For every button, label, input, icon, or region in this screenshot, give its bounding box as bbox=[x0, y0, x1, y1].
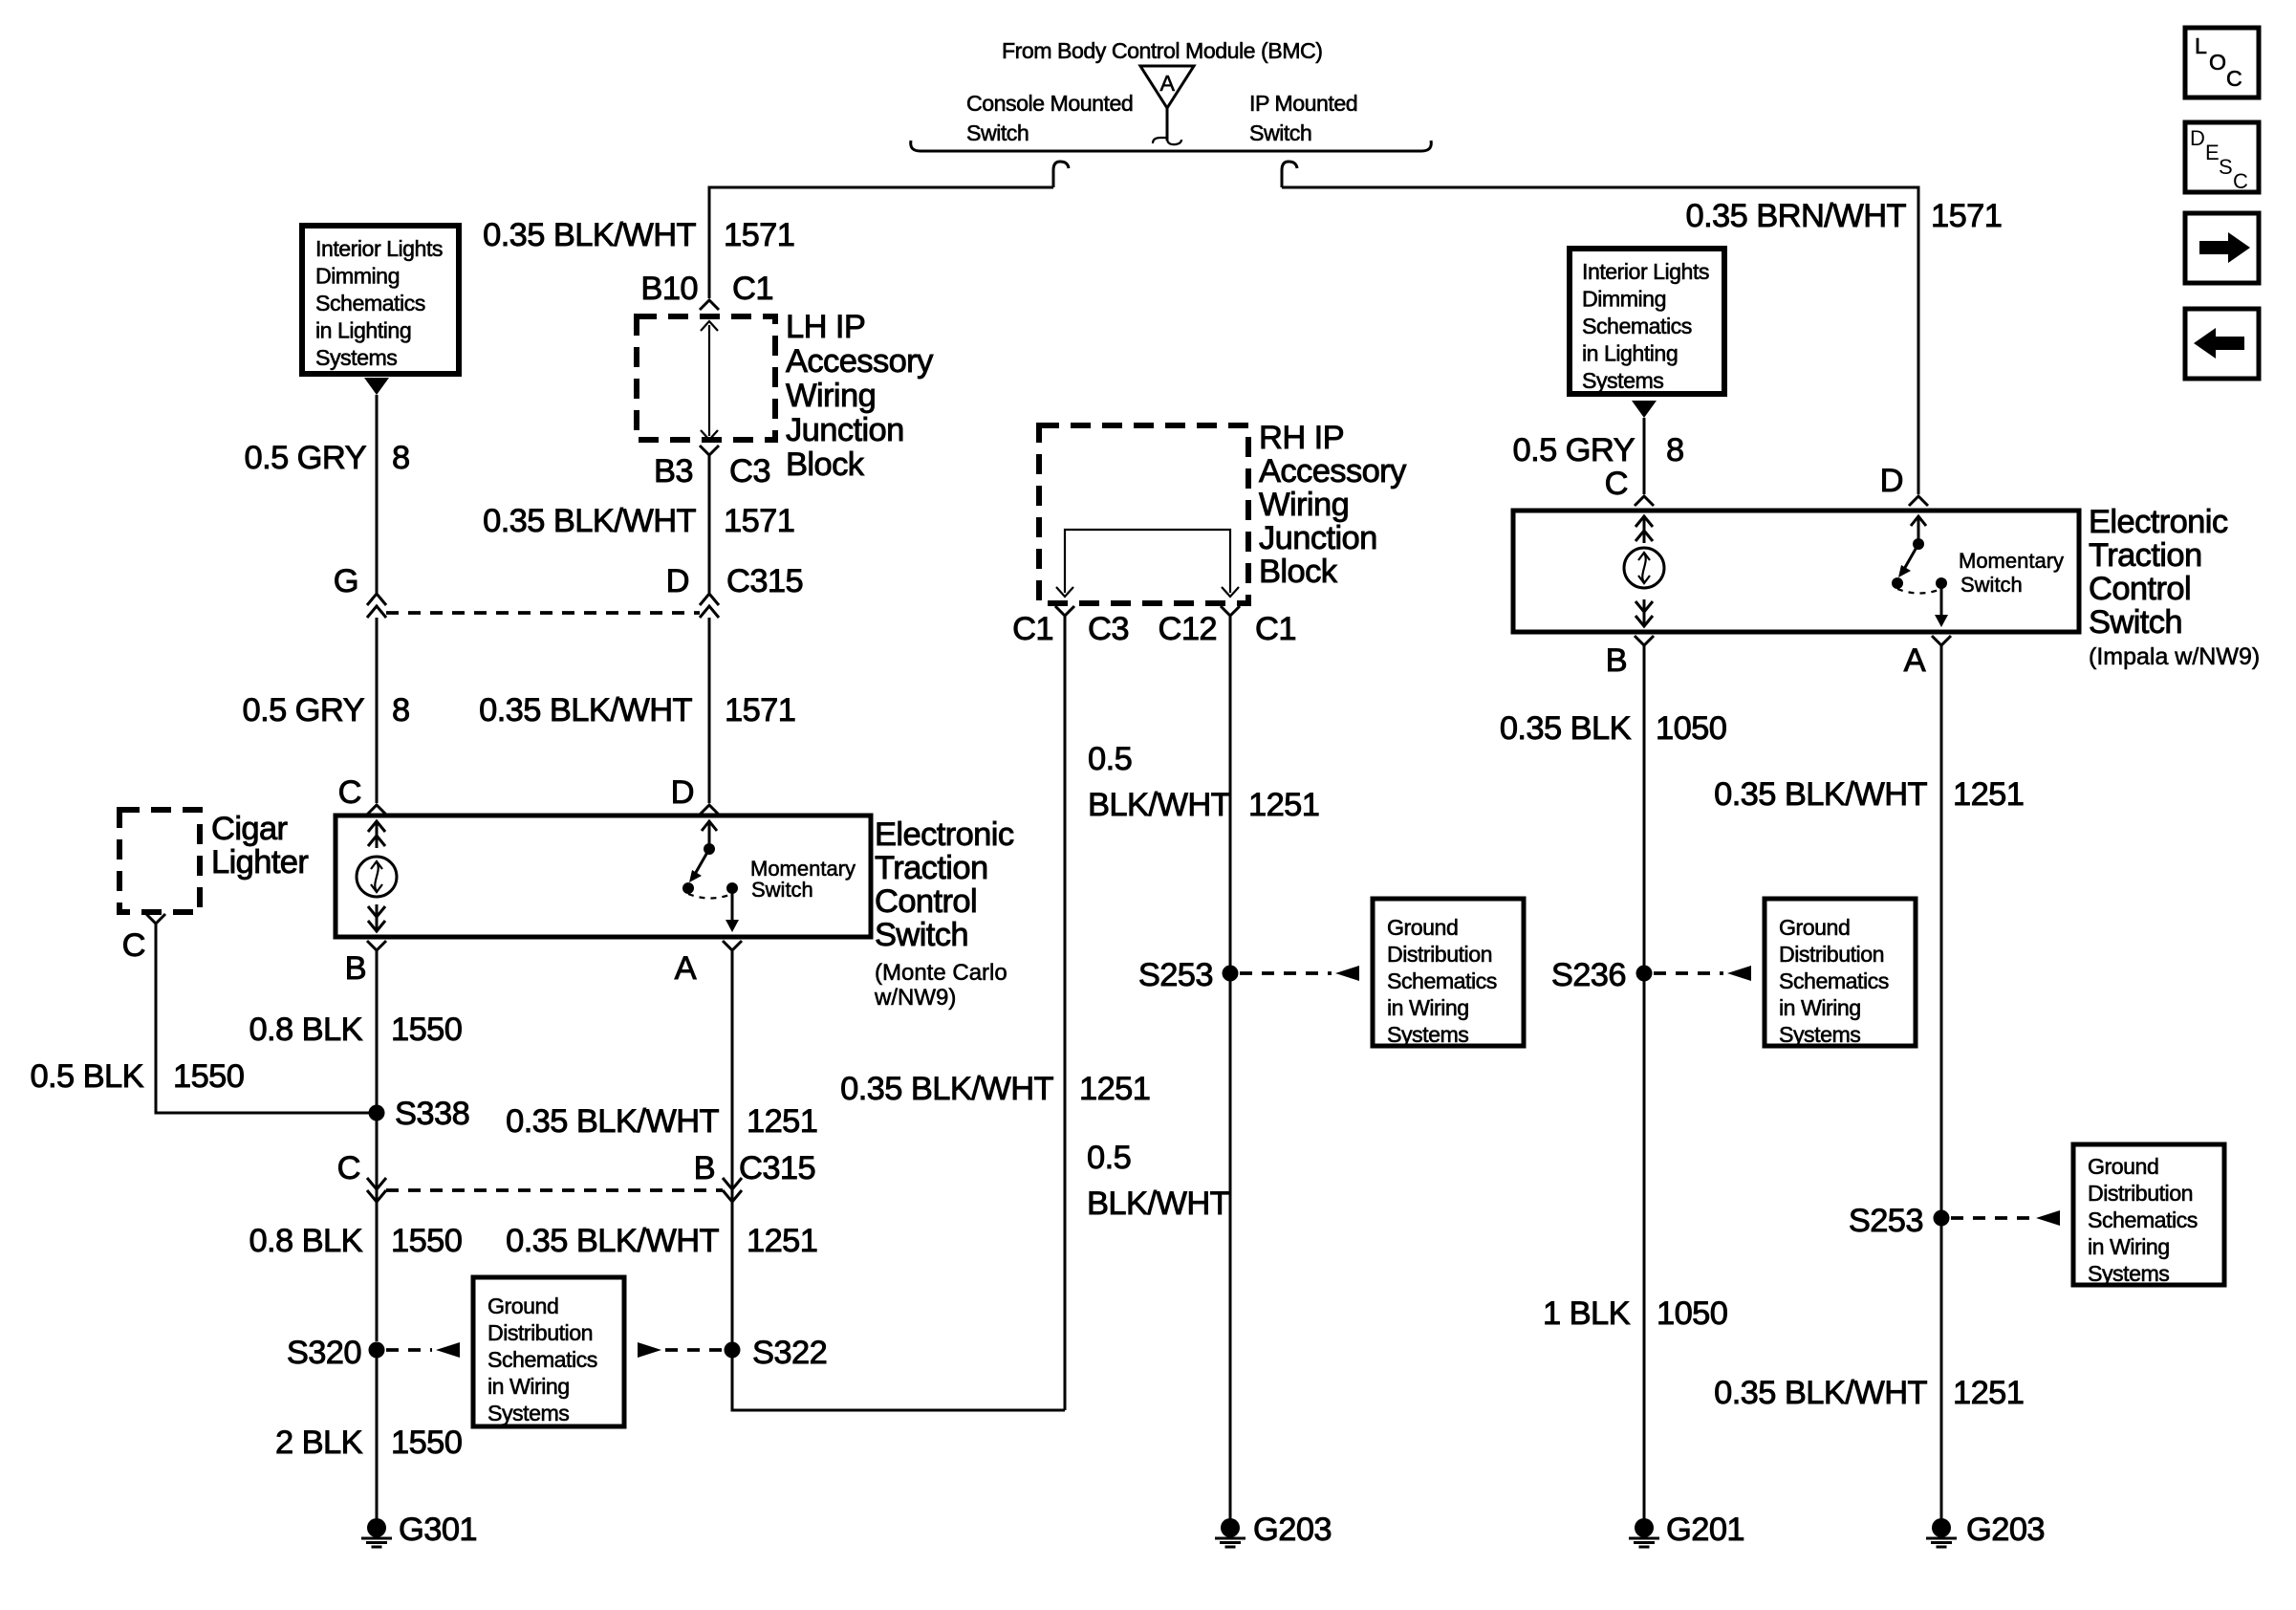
svg-text:Block: Block bbox=[786, 446, 865, 483]
dashed reference arrow ground distribution box to S322 bbox=[638, 1342, 661, 1358]
LH IP Accessory Wiring Junction Block (dashed) bbox=[637, 316, 775, 440]
svg-text:in Wiring: in Wiring bbox=[487, 1374, 570, 1399]
connector at pin C (impala switch) bbox=[1635, 496, 1654, 506]
svg-text:Control: Control bbox=[875, 883, 977, 920]
svg-text:From Body Control Module (BMC): From Body Control Module (BMC) bbox=[1002, 38, 1323, 63]
momentary switch (impala) pivot dot bbox=[1913, 538, 1924, 550]
wire pin A to S253 to G203 (right) bbox=[1940, 645, 1943, 1519]
svg-text:D: D bbox=[2190, 126, 2205, 150]
box Interior Lights Dimming Schematics in Lighting Systems (right) bbox=[1570, 249, 1724, 394]
svg-text:Systems: Systems bbox=[487, 1401, 569, 1425]
svg-text:Switch: Switch bbox=[875, 917, 968, 953]
svg-text:C3: C3 bbox=[729, 453, 770, 490]
arrowhead from interior lights box (right) bbox=[1632, 401, 1657, 418]
svg-text:1 BLK: 1 BLK bbox=[1543, 1295, 1631, 1332]
svg-text:0.35 BLK/WHT: 0.35 BLK/WHT bbox=[506, 1103, 719, 1140]
box Electronic Traction Control Switch (Impala w/NW9) bbox=[1513, 511, 2079, 632]
svg-text:S253: S253 bbox=[1138, 957, 1213, 993]
svg-text:1550: 1550 bbox=[391, 1012, 462, 1048]
svg-text:1251: 1251 bbox=[1953, 776, 2024, 813]
svg-text:1251: 1251 bbox=[1953, 1375, 2024, 1411]
wire C3 down to S322 link bbox=[1064, 616, 1067, 1410]
dashed connector line C315 (lower) bbox=[386, 1188, 723, 1192]
svg-text:IP Mounted: IP Mounted bbox=[1249, 91, 1357, 116]
svg-text:Ground: Ground bbox=[1387, 915, 1458, 940]
svg-text:Lighter: Lighter bbox=[211, 844, 308, 881]
box RH IP Accessory Wiring Junction Block (dashed) bbox=[1039, 425, 1248, 603]
svg-text:Accessory: Accessory bbox=[786, 343, 934, 380]
svg-text:A: A bbox=[675, 950, 697, 987]
splice S338 bbox=[369, 1105, 385, 1121]
svg-text:S338: S338 bbox=[395, 1096, 469, 1132]
svg-text:A: A bbox=[1904, 642, 1926, 679]
splice S253 bbox=[1223, 966, 1239, 982]
svg-text:E: E bbox=[2205, 141, 2220, 164]
svg-text:Interior Lights: Interior Lights bbox=[1582, 259, 1709, 284]
wire G to C bbox=[376, 618, 379, 803]
svg-text:Distribution: Distribution bbox=[1779, 942, 1884, 967]
svg-text:Wiring: Wiring bbox=[786, 378, 876, 414]
svg-text:Distribution: Distribution bbox=[487, 1320, 593, 1345]
svg-text:B10: B10 bbox=[640, 271, 698, 307]
svg-text:C: C bbox=[2226, 66, 2242, 91]
G203 (center) ground symbol bbox=[1221, 1518, 1240, 1537]
svg-text:1550: 1550 bbox=[173, 1058, 244, 1095]
box Ground Distribution Schematics in Wiring Systems (right) bbox=[1765, 899, 1916, 1046]
connector at pin A (monte carlo) bbox=[723, 941, 742, 950]
connector at pin B (impala) bbox=[1635, 636, 1654, 645]
svg-text:C: C bbox=[2233, 169, 2248, 193]
svg-text:1251: 1251 bbox=[1079, 1071, 1150, 1107]
svg-text:L: L bbox=[2195, 33, 2207, 58]
svg-text:in Lighting: in Lighting bbox=[315, 318, 411, 343]
svg-text:1050: 1050 bbox=[1657, 1295, 1727, 1332]
wire pin A to S322 to RH junction block bbox=[732, 950, 1065, 1410]
pin C arrows inside switch bbox=[376, 821, 379, 848]
svg-text:1571: 1571 bbox=[724, 217, 794, 253]
svg-text:A: A bbox=[1160, 71, 1176, 96]
svg-text:0.5 BLK: 0.5 BLK bbox=[30, 1058, 143, 1095]
svg-text:D: D bbox=[671, 774, 694, 811]
connector chevrons at B/C315 lower bbox=[723, 1178, 742, 1202]
illumination lamp symbol (impala) bbox=[1624, 548, 1664, 588]
splice S236 bbox=[1636, 966, 1653, 982]
momentary switch (monte carlo) left contact bbox=[682, 882, 694, 894]
wire hook to IP switch branch bbox=[1282, 162, 1297, 187]
dashed reference arrow S236 to ground distribution box bbox=[1654, 971, 1723, 975]
svg-text:Dimming: Dimming bbox=[315, 264, 400, 289]
illumination lamp symbol (monte carlo) bbox=[357, 857, 397, 897]
junction block internal wire with arrows bbox=[708, 325, 710, 436]
svg-text:1550: 1550 bbox=[391, 1425, 462, 1461]
svg-text:0.35 BLK: 0.35 BLK bbox=[1500, 710, 1632, 747]
svg-text:0.35 BLK/WHT: 0.35 BLK/WHT bbox=[1714, 1375, 1927, 1411]
connector at cigar lighter pin C bbox=[146, 914, 165, 924]
svg-text:C: C bbox=[1605, 466, 1628, 502]
svg-text:C: C bbox=[338, 774, 361, 811]
svg-text:Momentary: Momentary bbox=[1959, 549, 2064, 573]
svg-text:Cigar: Cigar bbox=[211, 811, 288, 847]
svg-text:S: S bbox=[2219, 155, 2233, 179]
momentary switch (impala) output arrow down bbox=[1940, 588, 1943, 621]
momentary switch (monte carlo) right contact bbox=[726, 882, 738, 894]
svg-text:C315: C315 bbox=[726, 563, 803, 599]
svg-text:C12: C12 bbox=[1159, 611, 1218, 647]
splice S320 bbox=[369, 1342, 385, 1359]
svg-text:D: D bbox=[666, 563, 689, 599]
svg-text:0.8 BLK: 0.8 BLK bbox=[249, 1223, 362, 1259]
svg-text:G201: G201 bbox=[1666, 1512, 1744, 1548]
svg-text:G203: G203 bbox=[1966, 1512, 2045, 1548]
box Ground Distribution Schematics in Wiring Systems (left) bbox=[473, 1277, 624, 1426]
svg-text:B: B bbox=[345, 950, 366, 987]
svg-text:w/NW9): w/NW9) bbox=[874, 985, 956, 1011]
right arrow icon box bbox=[2185, 213, 2259, 283]
svg-text:8: 8 bbox=[392, 440, 410, 476]
svg-text:C1: C1 bbox=[1012, 611, 1053, 647]
svg-text:Systems: Systems bbox=[2088, 1261, 2169, 1286]
box Interior Lights Dimming Schematics in Lighting Systems (left) bbox=[302, 226, 459, 374]
svg-text:0.5: 0.5 bbox=[1087, 1140, 1131, 1176]
svg-text:in Wiring: in Wiring bbox=[2088, 1234, 2170, 1259]
wire pin B to S338 bbox=[376, 950, 379, 1341]
svg-text:Interior Lights: Interior Lights bbox=[315, 236, 443, 261]
svg-text:Traction: Traction bbox=[2089, 537, 2202, 574]
svg-text:Console Mounted: Console Mounted bbox=[966, 91, 1133, 116]
svg-text:Schematics: Schematics bbox=[487, 1347, 597, 1372]
wire 0.5 GRY 8 (interior lights to G of switch) bbox=[376, 395, 379, 593]
connector at C12/C1 bbox=[1221, 606, 1240, 616]
svg-text:Electronic: Electronic bbox=[875, 816, 1014, 853]
G301 ground symbol bbox=[367, 1518, 386, 1537]
svg-text:C1: C1 bbox=[1255, 611, 1296, 647]
svg-text:8: 8 bbox=[1666, 432, 1684, 468]
connector chevrons at C/C315 lower bbox=[367, 1178, 386, 1202]
svg-text:RH IP: RH IP bbox=[1259, 420, 1344, 456]
svg-text:C3: C3 bbox=[1088, 611, 1129, 647]
connector at pin C (monte carlo switch) bbox=[367, 805, 386, 815]
svg-text:BLK/WHT: BLK/WHT bbox=[1087, 1186, 1230, 1222]
left arrow icon box bbox=[2185, 309, 2259, 379]
connector at C1/C3 bbox=[1055, 606, 1074, 616]
svg-text:1251: 1251 bbox=[747, 1103, 817, 1140]
svg-text:(Impala w/NW9): (Impala w/NW9) bbox=[2089, 643, 2260, 670]
dashed reference arrow S253 to ground distribution box (lower right) bbox=[1951, 1216, 2032, 1220]
svg-text:Systems: Systems bbox=[1779, 1022, 1860, 1047]
svg-text:in Lighting: in Lighting bbox=[1582, 341, 1678, 366]
wire 0.5 GRY 8 to pin C (impala) bbox=[1643, 418, 1646, 494]
svg-text:BLK/WHT: BLK/WHT bbox=[1088, 787, 1231, 823]
svg-text:S253: S253 bbox=[1849, 1203, 1923, 1239]
momentary switch (monte carlo) pivot dot bbox=[704, 843, 715, 855]
svg-text:S320: S320 bbox=[287, 1335, 361, 1371]
svg-text:O: O bbox=[2209, 50, 2226, 75]
svg-text:Distribution: Distribution bbox=[1387, 942, 1492, 967]
wire cigar lighter to S338 bbox=[156, 924, 369, 1113]
splice S322 bbox=[725, 1342, 741, 1359]
svg-text:2 BLK: 2 BLK bbox=[275, 1425, 363, 1461]
svg-text:Junction: Junction bbox=[786, 412, 904, 448]
svg-text:0.35 BLK/WHT: 0.35 BLK/WHT bbox=[506, 1223, 719, 1259]
G201 ground symbol bbox=[1635, 1518, 1654, 1537]
svg-text:Accessory: Accessory bbox=[1259, 453, 1407, 490]
svg-text:B: B bbox=[694, 1150, 715, 1186]
wire hook to console switch branch bbox=[1053, 162, 1069, 187]
node A triangle (from BCM) bbox=[1140, 66, 1194, 108]
svg-text:1050: 1050 bbox=[1656, 710, 1726, 747]
svg-text:0.5: 0.5 bbox=[1088, 741, 1132, 777]
junction block internal bus wire bbox=[1065, 530, 1230, 593]
svg-text:1251: 1251 bbox=[747, 1223, 817, 1259]
svg-text:C: C bbox=[122, 927, 145, 964]
svg-text:in Wiring: in Wiring bbox=[1779, 995, 1861, 1020]
arrowhead from interior lights box bbox=[364, 378, 389, 395]
connector chevrons at G bbox=[367, 594, 386, 618]
pin C arrows inside impala switch bbox=[1643, 516, 1646, 543]
svg-text:Systems: Systems bbox=[1387, 1022, 1468, 1047]
svg-text:1571: 1571 bbox=[1931, 198, 2002, 234]
momentary switch (monte carlo) blade bbox=[694, 849, 709, 876]
svg-text:0.35 BLK/WHT: 0.35 BLK/WHT bbox=[840, 1071, 1053, 1107]
svg-text:0.8 BLK: 0.8 BLK bbox=[249, 1012, 362, 1048]
wire S320 to G301 bbox=[376, 1358, 379, 1519]
box Cigar Lighter (dashed) bbox=[119, 810, 200, 912]
svg-text:1550: 1550 bbox=[391, 1223, 462, 1259]
G203 (right) ground symbol bbox=[1932, 1518, 1951, 1537]
svg-text:Electronic: Electronic bbox=[2089, 504, 2228, 540]
svg-text:Schematics: Schematics bbox=[2088, 1207, 2198, 1232]
svg-text:1251: 1251 bbox=[1248, 787, 1319, 823]
momentary switch (impala) right contact bbox=[1936, 577, 1947, 589]
svg-text:0.35 BLK/WHT: 0.35 BLK/WHT bbox=[479, 692, 692, 729]
momentary switch (impala) left contact bbox=[1892, 577, 1903, 589]
svg-text:in Wiring: in Wiring bbox=[1387, 995, 1469, 1020]
dashed connector line C315 (upper) bbox=[386, 611, 700, 615]
svg-text:1571: 1571 bbox=[724, 503, 794, 539]
svg-text:0.5 GRY: 0.5 GRY bbox=[245, 440, 367, 476]
svg-text:C1: C1 bbox=[732, 271, 773, 307]
connector at B3/C3 bbox=[700, 446, 719, 455]
svg-text:S322: S322 bbox=[752, 1335, 827, 1371]
svg-text:0.35 BLK/WHT: 0.35 BLK/WHT bbox=[483, 217, 696, 253]
svg-text:Switch: Switch bbox=[2089, 604, 2182, 641]
svg-text:(Monte Carlo: (Monte Carlo bbox=[875, 960, 1007, 986]
svg-text:Junction: Junction bbox=[1259, 520, 1377, 556]
lamp to pin B arrows (impala) bbox=[1643, 599, 1646, 626]
svg-text:G: G bbox=[334, 563, 358, 599]
momentary switch (monte carlo) bbox=[708, 822, 711, 849]
box Ground Distribution Schematics in Wiring Systems (center) bbox=[1373, 899, 1524, 1046]
connector at pin D (monte carlo switch) bbox=[700, 805, 719, 815]
momentary switch (impala) blade bbox=[1903, 544, 1918, 571]
box Electronic Traction Control Switch (Monte Carlo w/NW9) bbox=[336, 816, 871, 937]
svg-text:Ground: Ground bbox=[2088, 1154, 2158, 1179]
wire stem from triangle A bbox=[1166, 108, 1169, 141]
svg-text:Ground: Ground bbox=[487, 1294, 558, 1318]
LOC icon box bbox=[2185, 28, 2259, 98]
svg-text:B: B bbox=[1606, 642, 1627, 679]
momentary switch (impala) dashed throw arc bbox=[1897, 589, 1941, 594]
connector chevrons at D/C315 bbox=[700, 594, 719, 618]
svg-text:G203: G203 bbox=[1253, 1512, 1332, 1548]
dashed reference arrow S253 to ground distribution box bbox=[1240, 971, 1332, 975]
svg-text:Schematics: Schematics bbox=[1387, 968, 1497, 993]
momentary switch (monte carlo) output arrow down bbox=[731, 893, 734, 926]
connector at B10/C1 bbox=[700, 300, 719, 310]
svg-text:D: D bbox=[1880, 463, 1903, 499]
wire pin B to S236 to G201 bbox=[1643, 645, 1646, 1519]
svg-text:Systems: Systems bbox=[1582, 368, 1663, 393]
svg-text:0.5 GRY: 0.5 GRY bbox=[1513, 432, 1635, 468]
svg-text:Block: Block bbox=[1259, 554, 1338, 590]
wire from console branch to B10 bbox=[709, 187, 1053, 298]
wire from IP branch to D of impala switch bbox=[1282, 187, 1918, 494]
svg-text:Switch: Switch bbox=[966, 120, 1029, 145]
svg-text:Schematics: Schematics bbox=[315, 291, 425, 315]
connector at pin A (impala) bbox=[1932, 636, 1951, 645]
bracket under BCM options bbox=[911, 141, 1432, 151]
svg-text:Schematics: Schematics bbox=[1582, 314, 1692, 338]
connector at pin B (monte carlo) bbox=[367, 941, 386, 950]
svg-text:1571: 1571 bbox=[725, 692, 795, 729]
DESC icon box bbox=[2185, 122, 2259, 192]
svg-text:Switch: Switch bbox=[751, 878, 813, 902]
svg-text:Dimming: Dimming bbox=[1582, 287, 1666, 312]
box Ground Distribution Schematics in Wiring Systems (lower right) bbox=[2073, 1144, 2224, 1285]
svg-text:Distribution: Distribution bbox=[2088, 1181, 2193, 1206]
svg-text:LH IP: LH IP bbox=[786, 309, 865, 345]
svg-text:B3: B3 bbox=[654, 453, 693, 490]
svg-text:0.35 BLK/WHT: 0.35 BLK/WHT bbox=[483, 503, 696, 539]
svg-text:S236: S236 bbox=[1551, 957, 1626, 993]
svg-text:Wiring: Wiring bbox=[1259, 487, 1349, 523]
dashed reference arrow S320 to ground distribution box bbox=[386, 1348, 432, 1352]
wire B3 to D (C315) bbox=[708, 455, 711, 593]
svg-text:C: C bbox=[337, 1150, 360, 1186]
svg-text:G301: G301 bbox=[399, 1512, 477, 1548]
svg-text:0.35 BLK/WHT: 0.35 BLK/WHT bbox=[1714, 776, 1927, 813]
splice S253 (right) bbox=[1934, 1210, 1950, 1227]
momentary switch (monte carlo) dashed throw arc bbox=[688, 894, 732, 899]
svg-text:Ground: Ground bbox=[1779, 915, 1850, 940]
svg-text:0.35 BRN/WHT: 0.35 BRN/WHT bbox=[1685, 198, 1906, 234]
svg-text:Switch: Switch bbox=[1960, 573, 2023, 597]
svg-text:Systems: Systems bbox=[315, 345, 397, 370]
svg-text:Switch: Switch bbox=[1249, 120, 1311, 145]
svg-text:Control: Control bbox=[2089, 571, 2191, 607]
momentary switch (impala) bbox=[1917, 517, 1920, 544]
connector at pin D (impala switch) bbox=[1909, 496, 1928, 506]
lamp to pin B arrows bbox=[376, 904, 379, 931]
svg-text:C315: C315 bbox=[739, 1150, 815, 1186]
wire C1 down to G203 bbox=[1229, 616, 1232, 1519]
wire D/C315 to D pin of switch bbox=[708, 618, 711, 803]
svg-text:0.5 GRY: 0.5 GRY bbox=[243, 692, 365, 729]
svg-text:Traction: Traction bbox=[875, 850, 988, 886]
svg-text:Schematics: Schematics bbox=[1779, 968, 1889, 993]
svg-text:8: 8 bbox=[392, 692, 410, 729]
